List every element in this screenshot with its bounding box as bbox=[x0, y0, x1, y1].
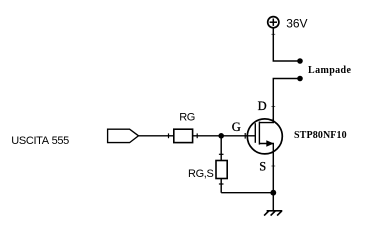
pin tick gate bbox=[244, 133, 246, 139]
wire source to junction bbox=[272, 152, 274, 193]
resistor RG bbox=[174, 129, 193, 142]
svg-text:RG,S: RG,S bbox=[188, 168, 214, 180]
node source junction bbox=[270, 190, 276, 196]
pin tick RG left bbox=[168, 133, 170, 138]
supply symbol +36V bbox=[268, 17, 279, 28]
pin tick supply bbox=[271, 33, 275, 35]
pin tick source bbox=[271, 165, 275, 167]
wire lamp terminal 2 to drain bbox=[273, 79, 297, 123]
wire supply to lamp corner bbox=[273, 28, 297, 61]
svg-text:D: D bbox=[258, 99, 267, 113]
svg-text:G: G bbox=[232, 120, 241, 134]
pin tick drain bbox=[271, 106, 275, 108]
transistor source internal lead bbox=[259, 144, 273, 155]
svg-text:STP80NF10: STP80NF10 bbox=[294, 130, 347, 141]
wire junction to ground bbox=[272, 193, 274, 211]
ground bbox=[264, 211, 282, 216]
pin tick RG right bbox=[196, 133, 198, 138]
resistor RG,S bbox=[216, 161, 227, 179]
svg-text:USCITA 555: USCITA 555 bbox=[11, 135, 69, 147]
transistor Q1 STP80NF10 body bbox=[247, 119, 282, 154]
wire gate junction down to bottom rail bbox=[220, 136, 222, 193]
svg-text:S: S bbox=[259, 159, 266, 173]
svg-text:36V: 36V bbox=[286, 16, 307, 30]
node lamp terminal 1 bbox=[297, 58, 303, 64]
wire bottom rail to source junction bbox=[221, 192, 273, 194]
pin tick RGS bottom bbox=[219, 183, 224, 185]
node gate junction bbox=[218, 133, 224, 139]
svg-text:Lampade: Lampade bbox=[308, 65, 352, 76]
node lamp terminal 2 bbox=[297, 76, 303, 82]
transistor arrow bbox=[266, 140, 274, 147]
svg-text:RG: RG bbox=[179, 112, 195, 124]
transistor gate bar bbox=[254, 123, 256, 143]
transistor drain internal lead bbox=[259, 118, 273, 123]
wire gate line from port to gate bar bbox=[138, 135, 255, 137]
transistor channel bar bbox=[258, 122, 260, 145]
input port flag bbox=[108, 129, 139, 142]
pin tick RGS top bbox=[219, 153, 224, 155]
